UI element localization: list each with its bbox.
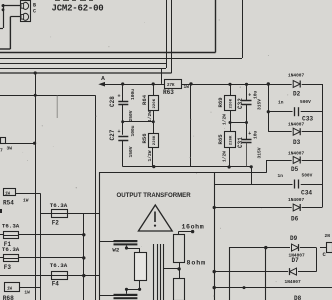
svg-text:D7: D7 (292, 257, 300, 264)
resistor R64 (153, 84, 155, 95)
svg-text:315V: 315V (256, 99, 262, 110)
node R64 top (152, 82, 155, 85)
wire vertical rail (35, 73, 37, 300)
wire line D (0, 68, 166, 70)
capacitor C32 (246, 84, 248, 100)
wire mid row right (230, 122, 247, 124)
diode D3 (268, 131, 291, 133)
svg-text:315V: 315V (256, 147, 262, 158)
wire from R63 node down (190, 84, 192, 167)
wire right rail (322, 84, 324, 208)
svg-text:F2: F2 (52, 219, 60, 226)
svg-text:220K: 220K (230, 135, 234, 145)
svg-text:1/2W: 1/2W (147, 150, 153, 161)
resistor (W2 damper) (139, 248, 141, 252)
wire row2 to D5 (214, 172, 267, 174)
svg-text:C32: C32 (237, 98, 244, 109)
resistor R57 (1, 138, 6, 144)
svg-text:2N: 2N (325, 233, 331, 239)
resistor 16ohm load (174, 235, 185, 263)
svg-text:1N4007: 1N4007 (288, 197, 305, 203)
capacitor C31 (246, 123, 248, 140)
capacitor C28 (122, 84, 124, 101)
wire line C (0, 63, 166, 65)
svg-text:10u: 10u (253, 130, 259, 139)
output transformer box (100, 173, 215, 300)
svg-text:C31: C31 (237, 137, 244, 148)
diode D5 (267, 160, 292, 162)
svg-text:F4: F4 (52, 281, 60, 288)
connector J (mains input) (21, 1, 31, 22)
capacitor C27 (122, 122, 124, 135)
svg-text:F3: F3 (4, 264, 12, 271)
winding W2 (100, 241, 114, 243)
wire bottom row (214, 287, 332, 289)
svg-text:D6: D6 (291, 216, 299, 223)
node A arrow (98, 82, 105, 87)
svg-text:D9: D9 (290, 235, 298, 242)
warning triangle (138, 205, 172, 231)
svg-text:500V: 500V (300, 99, 311, 105)
svg-text:7: 7 (0, 148, 3, 154)
svg-text:1n: 1n (278, 100, 284, 106)
svg-text:R54: R54 (3, 200, 14, 207)
svg-text:250V: 250V (128, 110, 134, 121)
svg-text:8ohm: 8ohm (187, 260, 206, 267)
diode D2 (268, 84, 291, 86)
wire (181, 84, 268, 86)
wire (316, 248, 318, 272)
wire primary feed (0, 95, 95, 97)
svg-text:1N4007: 1N4007 (288, 73, 305, 79)
svg-text:+: + (248, 93, 251, 99)
svg-text:1/2W: 1/2W (221, 114, 227, 125)
svg-text:OUTPUT TRANSFORMER: OUTPUT TRANSFORMER (117, 192, 192, 199)
transformer core lines (153, 244, 155, 300)
wire (127, 289, 140, 291)
svg-text:3W: 3W (7, 146, 13, 152)
svg-text:C27: C27 (109, 129, 116, 140)
wire (3, 4, 5, 28)
svg-text:1W: 1W (23, 198, 29, 204)
svg-text:D2: D2 (293, 91, 301, 98)
resistor 8ohm load (174, 279, 185, 300)
svg-text:+: + (118, 94, 121, 100)
node diode rail top (267, 82, 270, 85)
svg-text:150V: 150V (128, 146, 134, 157)
svg-text:T6.3A: T6.3A (2, 223, 20, 230)
svg-text:+: + (248, 131, 251, 137)
diode D6 (214, 207, 292, 209)
wire bottom row to transformer (123, 166, 252, 168)
svg-text:T6.3A: T6.3A (50, 262, 68, 269)
node C28 top (121, 82, 124, 85)
svg-text:T6.3A: T6.3A (2, 246, 20, 253)
speaker jack box (230, 248, 266, 300)
capacitor C34 (214, 184, 292, 186)
wire 8ohm tap (164, 268, 179, 270)
resistor R68 (5, 283, 20, 292)
svg-text:1W: 1W (24, 290, 30, 296)
svg-text:1N4007: 1N4007 (288, 122, 305, 128)
wire to R63 row (161, 68, 163, 84)
wire (10, 16, 20, 18)
capacitor C35 (clipped at edge) (320, 247, 326, 249)
svg-text:10u: 10u (253, 90, 259, 99)
svg-text:R56: R56 (141, 133, 148, 144)
resistor R63 (165, 80, 182, 89)
svg-text:T6.3A: T6.3A (50, 202, 68, 209)
wire mid row (123, 121, 154, 123)
resistor R56 (153, 122, 155, 134)
wire line E (0, 72, 172, 74)
svg-text:R68: R68 (3, 295, 14, 300)
svg-text:1/2W: 1/2W (222, 151, 228, 162)
svg-text:27K: 27K (167, 84, 175, 88)
scan noise (decorative) (19, 19, 289, 296)
svg-text:+: + (118, 129, 121, 135)
svg-text:220K: 220K (153, 98, 157, 108)
chassis border line B (0, 58, 242, 60)
resistor R65 (230, 123, 232, 132)
svg-text:C28: C28 (109, 96, 116, 107)
svg-text:1/2W: 1/2W (147, 111, 153, 122)
node C32 top (245, 83, 248, 86)
wire vertical (40, 194, 42, 300)
svg-text:1N4007: 1N4007 (285, 279, 302, 285)
svg-text:R65: R65 (217, 134, 224, 145)
svg-text:100u: 100u (130, 125, 136, 136)
svg-text:R63: R63 (163, 89, 174, 96)
svg-text:C: C (33, 9, 36, 15)
winding W3 (100, 295, 114, 297)
svg-text:1n: 1n (278, 173, 284, 179)
svg-text:1W: 1W (7, 288, 13, 292)
diode rail (268, 84, 270, 132)
capacitor C33 (268, 111, 292, 113)
node R69 top (228, 83, 231, 86)
svg-text:1W: 1W (5, 192, 11, 196)
wire common vertical (83, 214, 85, 300)
svg-text:R64: R64 (141, 94, 148, 105)
svg-text:220K: 220K (230, 98, 234, 108)
resistor R54 (4, 189, 16, 196)
svg-text:R69: R69 (217, 97, 224, 108)
svg-text:W2: W2 (112, 247, 119, 254)
svg-text:1N4007: 1N4007 (288, 151, 305, 157)
wire stub (faint) (56, 95, 58, 118)
svg-text:D3: D3 (293, 139, 301, 146)
svg-text:D5: D5 (291, 166, 299, 173)
svg-text:JCM2-62-00: JCM2-62-00 (52, 4, 104, 14)
svg-text:220K: 220K (153, 135, 157, 145)
svg-text:A: A (101, 76, 105, 82)
svg-text:C34: C34 (301, 190, 312, 197)
wire C31 junction down (251, 167, 253, 184)
wire main row (104, 84, 164, 86)
chassis border line A (0, 52, 216, 54)
svg-text:C33: C33 (302, 116, 313, 123)
svg-text:D8: D8 (294, 295, 302, 300)
node R63 right (189, 82, 192, 85)
svg-text:100u: 100u (130, 89, 136, 100)
resistor R69 (230, 84, 232, 95)
svg-text:16ohm: 16ohm (182, 224, 205, 231)
svg-text:500V: 500V (302, 173, 313, 179)
